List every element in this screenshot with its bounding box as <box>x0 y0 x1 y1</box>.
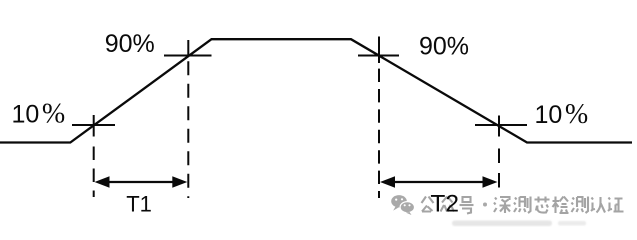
wire: dashed drop line at fall 10% (x=499) <box>498 149 500 198</box>
watermark: fake hanzi 测 (first) <box>514 197 531 214</box>
wire: dashed drop line at rise 90% (x=188.3) <box>187 61 189 198</box>
svg-text:10%: 10% <box>535 99 589 130</box>
node: fall 90% crossing tick (horizontal) <box>358 55 399 57</box>
node: fall 90% crossing tick (vertical) <box>378 37 380 64</box>
label: 10% (left) <box>12 99 66 130</box>
svg-text:90%: 90% <box>419 33 469 61</box>
node: rise 90% crossing tick (horizontal) <box>164 55 212 57</box>
watermark: fake hanzi 证 <box>608 198 624 212</box>
watermark: WeChat icon big bubble <box>391 195 407 211</box>
watermark: fake hanzi 深 <box>494 197 511 213</box>
label: T1 <box>126 191 152 216</box>
wire: dashed drop line at rise 10% (x=93.7) <box>93 147 95 198</box>
wire: dashed drop line at fall 90% (x=379) <box>378 69 380 198</box>
wire: waveform trace (bottom-left, rise edge, top, fall edge, bottom-right) <box>0 39 632 142</box>
svg-text:90%: 90% <box>105 30 155 58</box>
label: 90% (right) <box>419 33 469 61</box>
watermark: fake hanzi 众 (mostly behind T2) <box>441 197 455 212</box>
node: rise 10% crossing tick (horizontal) <box>72 124 115 126</box>
watermark: fake hanzi 检 <box>553 197 569 214</box>
watermark: fake hanzi 认 <box>591 197 605 213</box>
watermark: WeChat icon small bubble <box>400 202 414 215</box>
watermark: faint second-line smudge <box>452 221 586 227</box>
watermark: middle dot separator <box>483 203 487 207</box>
svg-text:10%: 10% <box>12 99 66 130</box>
label: 10% (right) <box>535 99 589 130</box>
watermark: fake hanzi 号 <box>460 197 474 214</box>
arrow: T1 rise-time double arrow <box>95 176 188 187</box>
label: 90% (left) <box>105 30 155 58</box>
node: fall 10% crossing tick (vertical) <box>498 116 500 137</box>
watermark: fake hanzi 公 <box>422 197 434 212</box>
svg-text:T1: T1 <box>126 191 152 216</box>
node: fall 10% crossing tick (horizontal) <box>475 124 527 126</box>
arrow: T2 fall-time double arrow <box>380 176 498 187</box>
watermark: fake hanzi 芯 <box>535 197 550 213</box>
node: rise 10% crossing tick (vertical) <box>93 115 95 137</box>
label: T2 <box>430 190 459 217</box>
svg-text:T2: T2 <box>430 190 459 217</box>
watermark: fake hanzi 测 (second) <box>572 197 589 214</box>
node: rise 90% crossing tick (vertical) <box>187 40 189 57</box>
